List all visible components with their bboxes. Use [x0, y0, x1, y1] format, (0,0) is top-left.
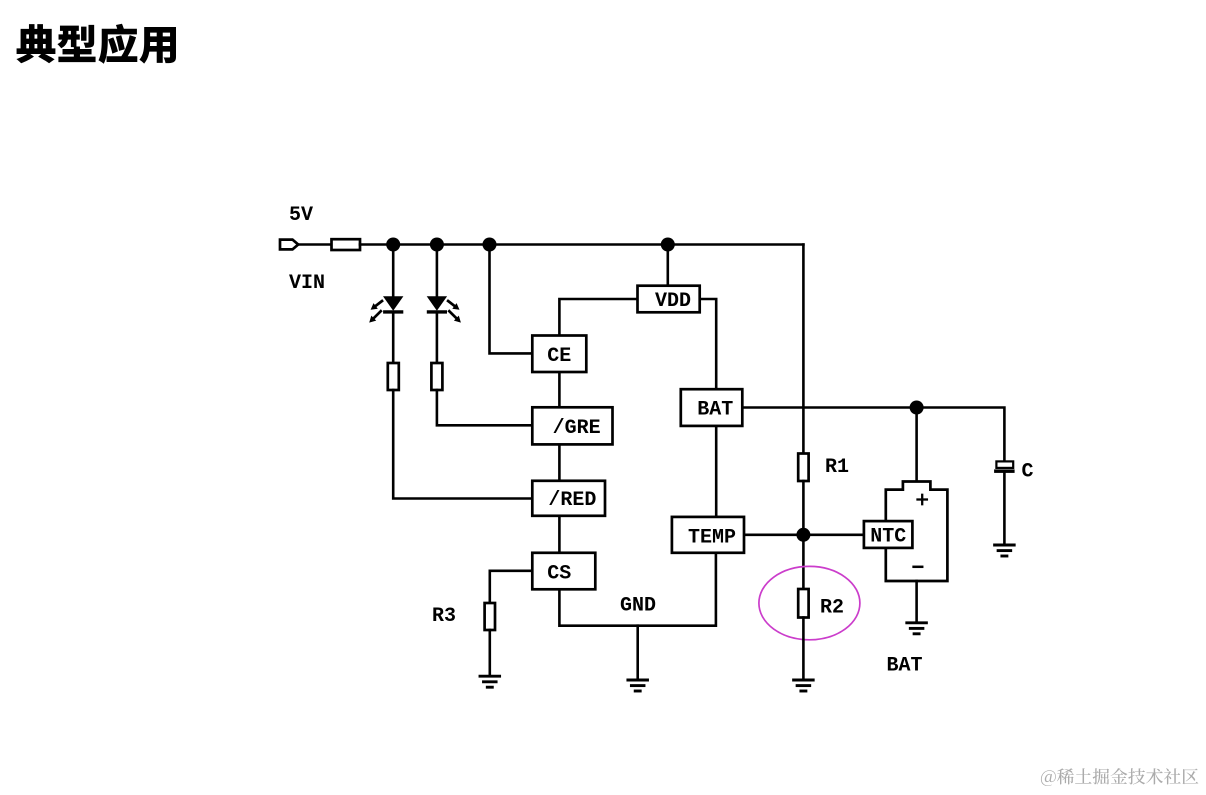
junction node TEMP-R1-R2	[796, 528, 810, 542]
pin box VDD	[638, 286, 700, 313]
svg-text:TEMP: TEMP	[688, 526, 736, 549]
pin box /GRE	[532, 407, 612, 444]
wire connector to input resistor	[298, 243, 331, 246]
wire R1 to TEMP node	[802, 481, 805, 589]
wire rail to LED D1	[392, 245, 395, 297]
wire BAT pin to capacitor C	[742, 408, 1004, 462]
wire CS pin to R3	[490, 571, 533, 603]
wire capacitor to ground	[1003, 473, 1006, 544]
wire BAT to TEMP	[715, 426, 718, 517]
pin box TEMP	[672, 517, 744, 553]
label C	[1022, 461, 1034, 484]
svg-text:VDD: VDD	[655, 290, 691, 313]
svg-text:R2: R2	[820, 597, 844, 620]
label R2	[820, 597, 844, 620]
pin box /RED	[532, 481, 605, 516]
wire VDD to BAT	[700, 299, 717, 389]
wire LED D1 to resistor	[392, 312, 395, 363]
pin box NTC	[864, 521, 913, 548]
wire VDD to CE chain	[559, 299, 637, 336]
ground R2	[794, 680, 814, 691]
pin box CE	[532, 336, 586, 373]
wire /GRE to /RED	[558, 444, 561, 480]
wire R1 branch from rail	[802, 245, 805, 454]
svg-text:R3: R3	[432, 605, 456, 628]
LED D2	[427, 296, 461, 322]
ground capacitor	[995, 545, 1015, 556]
wire /RED to CS	[558, 516, 561, 553]
connector VIN plug	[280, 240, 298, 250]
resistor LED D1 series	[388, 363, 399, 390]
node VIN label	[289, 272, 325, 295]
wire R3 to ground	[488, 630, 491, 675]
wire rail to LED D2	[436, 245, 439, 297]
label BAT battery	[887, 655, 923, 678]
highlight ellipse around R2	[759, 566, 860, 639]
svg-text:C: C	[1022, 461, 1034, 484]
wire battery to ground	[915, 581, 918, 622]
watermark @稀土掘金技术社区	[1041, 768, 1198, 786]
svg-text:GND: GND	[620, 595, 656, 618]
svg-text:BAT: BAT	[887, 655, 923, 678]
svg-text:/GRE: /GRE	[553, 417, 601, 440]
wire rail to VDD pin	[666, 245, 669, 286]
wire CS to bottom rail and TEMP	[559, 553, 716, 626]
wire TEMP pin to NTC	[744, 533, 864, 536]
wire junction to battery positive	[915, 408, 918, 482]
svg-text:5V: 5V	[289, 204, 313, 227]
junction node rail-LED1	[386, 238, 400, 252]
title text 典型应用	[16, 24, 176, 64]
svg-text:BAT: BAT	[697, 398, 733, 421]
wire CE to /GRE	[558, 372, 561, 407]
pin box BAT	[681, 389, 743, 426]
resistor R2	[798, 589, 808, 618]
label GND	[620, 595, 656, 618]
resistor input series (horizontal)	[332, 239, 361, 250]
svg-text:CE: CE	[547, 345, 571, 368]
wire rail to CE pin	[490, 245, 533, 354]
wire R2 to ground	[802, 618, 805, 679]
resistor R3	[485, 603, 495, 630]
junction node BAT-battery	[910, 401, 924, 415]
svg-text:CS: CS	[547, 563, 571, 586]
junction node rail-VDD	[661, 238, 675, 252]
svg-text:NTC: NTC	[870, 526, 906, 549]
resistor LED D2 series	[431, 363, 442, 390]
LED D1	[369, 296, 403, 322]
pin box CS	[532, 553, 595, 590]
ground R3	[480, 676, 500, 687]
junction node rail-LED2	[430, 238, 444, 252]
wire resistor to /GRE pin	[437, 390, 532, 425]
label R3	[432, 605, 456, 628]
node 5V label	[289, 204, 313, 227]
label R1	[825, 456, 849, 479]
resistor R1	[798, 454, 808, 482]
svg-text:/RED: /RED	[548, 489, 596, 512]
ground GND	[628, 680, 648, 691]
svg-text:R1: R1	[825, 456, 849, 479]
wire resistor to /RED pin	[393, 390, 532, 499]
wire LED D2 to resistor	[436, 312, 439, 363]
capacitor C	[994, 461, 1015, 473]
svg-text:VIN: VIN	[289, 272, 325, 295]
battery BAT	[886, 482, 948, 582]
wire GND pin to ground	[636, 626, 639, 679]
junction node rail-CE	[483, 238, 497, 252]
ground battery	[907, 623, 927, 634]
wire 5V top rail	[360, 243, 803, 246]
